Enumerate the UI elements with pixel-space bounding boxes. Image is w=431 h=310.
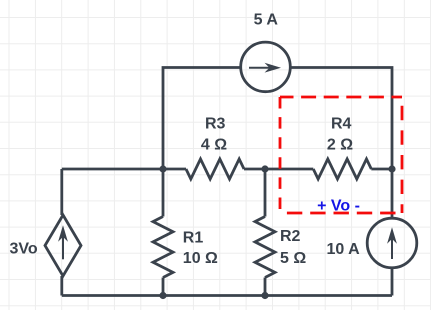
svg-text:R4: R4 [331,115,352,132]
resistor R2 top lead [264,169,267,217]
svg-text:+ Vo -: + Vo - [317,198,360,215]
highlight box left edge (red dashed) [279,97,282,213]
wire bottom rail [62,294,392,297]
highlight box right edge (red dashed) [401,97,404,213]
resistor R3 4ohm zigzag [186,159,244,179]
wire middle rail between R3 and R4 [244,168,313,171]
svg-text:4 Ω: 4 Ω [201,136,227,153]
resistor R1 top lead [162,169,165,217]
resistor R4 2ohm zigzag [313,159,371,179]
current source 5A [241,42,291,92]
svg-text:R2: R2 [280,228,301,245]
svg-text:2 Ω: 2 Ω [327,136,353,153]
current source 10A [367,218,417,268]
resistor R1 zigzag [153,217,173,278]
svg-text:5 A: 5 A [254,12,279,29]
junction node R1-bottom [159,292,166,299]
highlight box bottom edge (red dashed) [280,212,402,215]
junction node R1-top [159,165,166,172]
wire top-left: corner to 5A source [163,68,241,169]
svg-text:3Vo: 3Vo [10,241,38,258]
svg-text:10 Ω: 10 Ω [183,250,218,267]
wire 5A source to top-right corner [290,68,392,170]
svg-text:R1: R1 [183,230,204,247]
svg-text:R3: R3 [205,115,226,132]
wire R4 right lead [371,168,392,171]
highlight box top edge (red dashed) [280,96,402,99]
svg-text:5 Ω: 5 Ω [280,250,306,267]
junction node R4-right [388,165,395,172]
resistor R1 bottom lead [162,278,165,296]
dependent source 3Vo diamond [45,215,81,276]
junction node R2-bottom [261,292,268,299]
wire left branch down to 3Vo [60,169,63,215]
wire right column: junction to 10A [391,169,394,218]
wire 10A to bottom rail [391,268,394,296]
resistor R2 bottom lead [264,278,267,296]
svg-text:10 A: 10 A [327,241,361,258]
junction node R2-top [261,165,268,172]
wire middle rail left segment [62,168,186,171]
wire 3Vo to bottom rail [60,276,63,296]
resistor R2 zigzag [255,217,275,278]
